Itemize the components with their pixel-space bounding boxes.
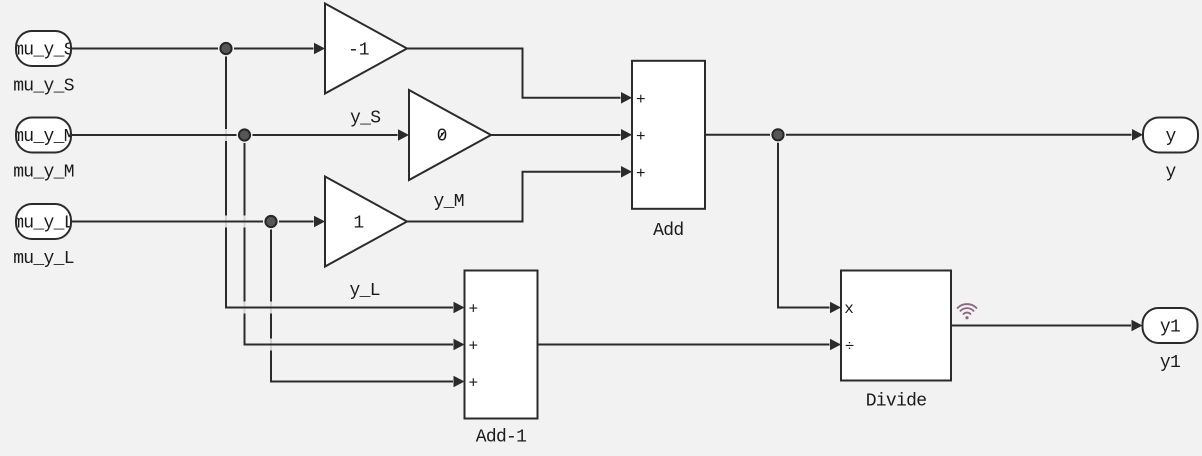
svg-text:mu_y_L: mu_y_L [13, 249, 74, 269]
svg-text:mu_y_M: mu_y_M [13, 127, 74, 147]
svg-text:+: + [468, 338, 478, 356]
svg-text:0: 0 [437, 127, 448, 147]
svg-text:y: y [1165, 163, 1176, 183]
svg-text:y: y [1165, 127, 1176, 147]
svg-text:Add: Add [653, 221, 683, 241]
svg-text:-1: -1 [348, 41, 370, 61]
svg-text:y_M: y_M [434, 192, 464, 212]
svg-text:mu_y_M: mu_y_M [13, 163, 74, 183]
svg-text:mu_y_S: mu_y_S [13, 40, 74, 60]
svg-text:y1: y1 [1160, 353, 1180, 373]
svg-text:+: + [468, 301, 478, 319]
svg-text:+: + [636, 128, 646, 146]
svg-text:y_S: y_S [350, 109, 380, 129]
svg-text:Divide: Divide [866, 392, 927, 412]
svg-text:Add-1: Add-1 [476, 428, 527, 448]
svg-text:y_L: y_L [350, 281, 380, 301]
svg-text:+: + [636, 91, 646, 109]
svg-text:y1: y1 [1160, 317, 1180, 337]
svg-text:mu_y_L: mu_y_L [13, 213, 74, 233]
svg-text:+: + [468, 375, 478, 393]
svg-text:1: 1 [353, 213, 364, 233]
svg-text:+: + [636, 165, 646, 183]
svg-text:mu_y_S: mu_y_S [13, 77, 74, 97]
svg-text:x: x [844, 300, 854, 318]
svg-text:÷: ÷ [845, 338, 855, 356]
